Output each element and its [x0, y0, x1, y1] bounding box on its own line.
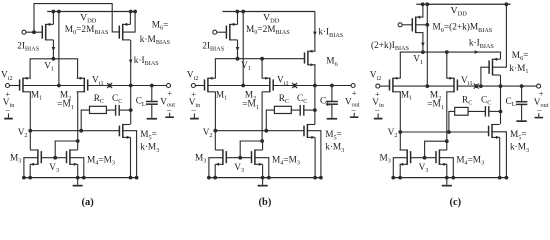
resistor RC (a) — [90, 106, 107, 113]
wire M3 drain to V2 (c) — [399, 132, 401, 150]
label RC (c) — [462, 95, 472, 106]
label (2+k)IBIAS (c) — [371, 40, 409, 52]
ground Vin (a) — [4, 114, 13, 120]
transistor M4 (c) — [436, 149, 447, 166]
ground Vout (a) — [165, 113, 174, 118]
label kIBIAS (c) — [469, 39, 494, 50]
output terminal Vout (b) — [351, 84, 355, 88]
label V3 (b) — [234, 163, 244, 174]
wire CC to output (c) — [489, 110, 501, 112]
svg-text:VDD: VDD — [263, 12, 280, 24]
caption (b) — [259, 197, 272, 208]
transistor M5 (a) — [119, 124, 130, 139]
svg-text:VDD: VDD — [80, 12, 97, 24]
svg-text:–: – — [5, 104, 11, 114]
wire VDD to M1 M2 bulk (a) — [57, 12, 61, 88]
label Vin (b) — [189, 98, 201, 109]
wire M1 drain to V2 (a) — [28, 92, 32, 133]
svg-text:k·IBIAS: k·IBIAS — [134, 56, 159, 67]
VSS rail (b) — [207, 176, 323, 180]
svg-text:k·MBIAS: k·MBIAS — [140, 35, 171, 46]
transistor M1 (c) — [390, 77, 401, 93]
wire VDD to M1 M2 bulk (b) — [241, 12, 245, 88]
svg-text:k·M3: k·M3 — [325, 143, 344, 154]
svg-text:M3: M3 — [380, 153, 391, 164]
ground Vin (c) — [374, 114, 383, 120]
wire M5 bulk to VSS (c) — [492, 132, 506, 178]
node V1 tail wire (c) — [400, 50, 500, 78]
wire M5 source to VSS (a) — [130, 137, 132, 177]
svg-text:V1: V1 — [44, 61, 54, 72]
node V1 tail wire (a) — [30, 57, 78, 79]
capacitor CC (a) — [116, 105, 120, 116]
wire M0 bulk (c) — [416, 23, 429, 27]
svg-text:M4=M3: M4=M3 — [272, 155, 300, 166]
label =M1 (b) — [242, 100, 259, 111]
svg-text:=M1: =M1 — [57, 100, 74, 111]
label RC (b) — [279, 94, 289, 105]
svg-text:M1: M1 — [31, 90, 42, 101]
node V2 wire (c) — [400, 130, 488, 134]
wire M5 source to VSS (c) — [499, 137, 501, 177]
ground CL (b) — [327, 118, 337, 120]
label minus Vin (b) — [191, 104, 197, 114]
label M6= (c) — [512, 51, 529, 62]
capacitor CC (b) — [300, 105, 304, 116]
transistor M3 (a) — [30, 149, 41, 166]
transistor M1 (b) — [205, 77, 216, 93]
svg-text:CL: CL — [506, 97, 516, 108]
wire bias terminal to M0 gate (a) — [26, 30, 42, 34]
wire M4 drain riser (a) — [77, 141, 79, 150]
wire Vi1 feedback line (b) — [273, 84, 351, 88]
label Vi1 (a) — [92, 76, 104, 87]
svg-text:+: + — [352, 88, 357, 98]
transistor M3 (c) — [400, 149, 411, 166]
svg-text:CL: CL — [320, 97, 330, 108]
wire M3 bulk to VSS (c) — [393, 158, 407, 178]
label V3 (a) — [49, 163, 59, 174]
capacitor CL (b) — [326, 86, 338, 118]
node V3 riser wire (a) — [53, 141, 77, 160]
label minus Vout (c) — [536, 104, 542, 114]
svg-text:M1: M1 — [401, 90, 412, 101]
wire M0 source to VDD (b) — [237, 12, 239, 25]
wire M3 M4 gate line (c) — [411, 157, 436, 159]
svg-text:M0=2MBIAS: M0=2MBIAS — [246, 25, 290, 36]
svg-text:RC: RC — [462, 95, 472, 106]
wire CC to output (a) — [119, 109, 131, 111]
VDD rail (c) — [416, 2, 510, 6]
label M4=M3 (b) — [272, 155, 300, 166]
wire M1 M2 bulk line (b) — [208, 85, 270, 87]
svg-text:–: – — [351, 104, 357, 114]
label M0=2MBIAS (b) — [246, 25, 290, 36]
output terminal Vout (c) — [537, 84, 541, 88]
label M5= (a) — [140, 130, 157, 141]
wire RC to CC (b) — [291, 109, 300, 111]
wire M0 source to VDD (c) — [422, 4, 424, 17]
bias input terminal (c) — [398, 23, 402, 27]
wire M0 source to VDD (a) — [52, 12, 54, 25]
svg-text:–: – — [191, 104, 197, 114]
transistor M3 (b) — [215, 149, 226, 166]
wire Vi2 to M1 gate (c) — [380, 85, 390, 87]
svg-text:k·IBIAS: k·IBIAS — [318, 28, 343, 39]
label V1 (b) — [241, 61, 251, 72]
wire M4 bulk to VSS (c) — [439, 158, 453, 178]
svg-text:CC: CC — [112, 94, 122, 105]
label CC (a) — [112, 94, 122, 105]
transistor M2 (c) — [446, 77, 457, 93]
svg-text:M3: M3 — [10, 153, 21, 164]
label M5= (c) — [510, 130, 527, 141]
transistor M5 (b) — [304, 124, 315, 139]
node V2 wire (b) — [215, 129, 304, 133]
wire M3 bulk to VSS (b) — [209, 158, 223, 178]
wire M2 drain (c) — [445, 92, 449, 143]
label V2 (c) — [388, 128, 398, 139]
label M2 (c) — [430, 91, 441, 102]
svg-text:M0=(2+k)MBIAS: M0=(2+k)MBIAS — [433, 22, 493, 34]
label CL (c) — [506, 97, 516, 108]
wire M1 M2 bulk line (a) — [23, 85, 84, 87]
ground Vin (b) — [190, 114, 199, 120]
wire M4 bulk to VSS (a) — [70, 158, 84, 178]
label M3 (c) — [380, 153, 391, 164]
label Vi2 (c) — [370, 71, 382, 82]
svg-text:RC: RC — [279, 94, 289, 105]
wire M6 drain with kIBIAS arrow (a) — [129, 40, 133, 124]
input terminal Vi2 (a) — [6, 84, 10, 88]
svg-text:M5=: M5= — [510, 130, 527, 141]
node V3 riser wire (c) — [423, 141, 447, 159]
capacitor CL (c) — [516, 86, 528, 120]
wire M0 drain with 2IBIAS arrow (a) — [52, 40, 56, 59]
wire M2 drain (a) — [76, 92, 80, 143]
wire M6 drain to output (c) — [499, 75, 503, 124]
label =M1 (c) — [427, 100, 444, 111]
wire M4 source to VSS (a) — [77, 164, 79, 177]
label V1 (a) — [44, 61, 54, 72]
label CL (a) — [136, 97, 146, 108]
label plus Vout (c) — [539, 89, 544, 99]
label M3 (a) — [10, 153, 21, 164]
wire M6 source to VDD (a) — [129, 12, 131, 25]
svg-text:V2: V2 — [203, 128, 213, 139]
svg-text:–: – — [374, 104, 380, 114]
wire RC to CC (a) — [106, 109, 115, 111]
label minus Vout (b) — [351, 104, 357, 114]
wire V2 to RC (a) — [81, 110, 89, 131]
svg-text:Vi2: Vi2 — [1, 71, 13, 82]
label kIBIAS (a) — [134, 56, 159, 67]
label 2IBIAS (a) — [17, 41, 39, 52]
label minus Vin (a) — [5, 104, 11, 114]
transistor M6 (b) — [305, 50, 316, 66]
label V1 (c) — [413, 55, 423, 66]
transistor M1 (a) — [20, 77, 31, 93]
label Vi1 (b) — [277, 76, 289, 87]
label M4=M3 (a) — [87, 155, 115, 166]
svg-text:2IBIAS: 2IBIAS — [202, 41, 224, 52]
transistor M5 (c) — [489, 124, 500, 139]
transistor M4 (a) — [67, 149, 78, 166]
svg-text:2IBIAS: 2IBIAS — [17, 41, 39, 52]
svg-text:CL: CL — [136, 97, 146, 108]
label M2 (b) — [245, 91, 256, 102]
wire M2 source drop (b) — [261, 59, 263, 79]
node V3 riser wire (b) — [238, 141, 262, 160]
svg-text:k·M3: k·M3 — [140, 143, 159, 154]
svg-text:M3: M3 — [195, 153, 206, 164]
label Vi2 (b) — [187, 71, 199, 82]
label V2 (b) — [203, 128, 213, 139]
caption (c) — [450, 197, 462, 208]
ground VSS (a) — [73, 178, 83, 187]
label RC (a) — [94, 94, 104, 105]
label M5= (b) — [325, 130, 342, 141]
label minus Vout (a) — [166, 104, 172, 114]
bias input terminal (a) — [22, 30, 26, 34]
wire M4 drain riser (c) — [446, 141, 448, 150]
transistor M2 (a) — [77, 77, 88, 93]
transistor M0 (b) — [226, 23, 237, 41]
wire VDD to M6 source with kIBIAS arrow (b) — [313, 12, 317, 52]
svg-text:M6=: M6= — [512, 51, 529, 62]
label kM3 (c) — [510, 143, 529, 154]
label Vi2 (a) — [1, 71, 13, 82]
wire Vi2 to M1 gate (b) — [196, 85, 205, 87]
label plus Vout (a) — [167, 88, 172, 98]
label V3 (c) — [419, 163, 429, 174]
wire M4 drain riser (b) — [262, 141, 264, 150]
net label VDD (b) — [263, 12, 280, 24]
ground VSS (b) — [258, 178, 268, 187]
wire M5 bulk to VSS (a) — [123, 131, 137, 178]
label M0=(2+k)MBIAS (c) — [433, 22, 493, 34]
svg-text:=M1: =M1 — [427, 100, 444, 111]
svg-text:M6=: M6= — [152, 20, 169, 31]
svg-text:k·IBIAS: k·IBIAS — [469, 39, 494, 50]
node marker star (b) — [292, 83, 297, 88]
svg-text:V3: V3 — [234, 163, 244, 174]
label M1 (b) — [216, 90, 227, 101]
transistor M6 (a) — [119, 23, 130, 41]
wire Vi2 to M1 gate (a) — [10, 85, 20, 87]
svg-text:–: – — [166, 104, 172, 114]
label M3 (b) — [195, 153, 206, 164]
ground Vout (b) — [350, 113, 359, 118]
transistor M0 (a) — [42, 23, 53, 41]
label kIBIAS (b) — [318, 28, 343, 39]
ground VSS (c) — [442, 178, 452, 187]
wire M1 drain to V2 (c) — [398, 92, 402, 134]
label Vin (a) — [3, 98, 15, 109]
wire Vi1 feedback line (a) — [88, 84, 167, 88]
svg-text:Vi2: Vi2 — [370, 71, 382, 82]
wire M6 gate riser from Vi1 (c) — [479, 67, 489, 88]
wire M0 drain with 2plusk IBIAS arrow (c) — [421, 33, 425, 53]
label V2 (a) — [18, 128, 28, 139]
label plus Vout (b) — [352, 88, 357, 98]
label M4=M3 (c) — [456, 155, 484, 166]
transistor M0 (c) — [412, 16, 423, 34]
svg-text:V3: V3 — [419, 163, 429, 174]
svg-text:V3: V3 — [49, 163, 59, 174]
svg-text:=M1: =M1 — [242, 100, 259, 111]
wire M6 bulk to VDD (c) — [493, 4, 507, 67]
svg-text:V2: V2 — [18, 128, 28, 139]
label M1 (a) — [31, 90, 42, 101]
node marker star (a) — [107, 83, 112, 88]
wire M5 source to VSS (b) — [314, 137, 316, 177]
label Vout (a) — [160, 97, 175, 108]
svg-text:–: – — [536, 104, 542, 114]
wire M1 M2 bulk line (c) — [393, 85, 454, 87]
wire V2 to RC (b) — [266, 110, 274, 131]
wire M5 bulk to VSS (b) — [307, 131, 321, 178]
caption (a) — [82, 197, 95, 208]
wire M4 source to VSS (c) — [446, 164, 448, 177]
wire M4 source to VSS (b) — [262, 164, 264, 177]
wire M3 source to VSS (c) — [399, 164, 401, 177]
label CL (b) — [320, 97, 330, 108]
wire M1 drain to V2 (b) — [214, 92, 218, 133]
svg-text:M0=2MBIAS: M0=2MBIAS — [65, 25, 109, 36]
resistor RC (c) — [455, 107, 468, 115]
capacitor CC (c) — [485, 106, 488, 117]
transistor M2 (b) — [262, 77, 273, 93]
svg-text:M5=: M5= — [140, 130, 157, 141]
ground CL (c) — [516, 120, 526, 122]
wire M4 bulk to VSS (b) — [255, 158, 269, 178]
label M1 (c) — [401, 90, 412, 101]
node V2 wire (a) — [30, 129, 119, 133]
input terminal Vi2 (c) — [376, 84, 380, 88]
svg-text:RC: RC — [94, 94, 104, 105]
label Vout (b) — [345, 97, 360, 108]
wire M6 bulk to VDD (a) — [123, 12, 135, 33]
svg-text:CC: CC — [297, 94, 307, 105]
wire M3 M4 gate line (a) — [41, 157, 66, 159]
svg-text:V1: V1 — [241, 61, 251, 72]
svg-text:+: + — [167, 88, 172, 98]
wire M3 drain to V2 (b) — [214, 131, 216, 150]
svg-text:CC: CC — [481, 95, 491, 106]
wire bias loop over top to M6 gate (a) — [34, 4, 119, 33]
svg-text:M6: M6 — [326, 57, 337, 68]
label M0=2MBIAS (a) — [65, 25, 109, 36]
wire M3 M4 gate line (b) — [226, 157, 251, 159]
label Vi1 (c) — [461, 76, 473, 87]
wire RC to CC (c) — [468, 110, 485, 112]
label CC (b) — [297, 94, 307, 105]
VDD rail (a) — [47, 10, 137, 14]
wire M3 source to VSS (b) — [214, 164, 216, 177]
label M6= (a) — [152, 20, 169, 31]
wire M3 source to VSS (a) — [29, 164, 31, 177]
wire M6 drain to output (b) — [311, 63, 317, 124]
label M2 (a) — [60, 91, 71, 102]
wire CC to output (b) — [304, 109, 315, 111]
node V1 tail wire (b) — [215, 57, 304, 79]
label CC (c) — [481, 95, 491, 106]
label plus Vin (c) — [375, 89, 380, 99]
svg-text:(b): (b) — [259, 197, 272, 208]
label Vin (c) — [372, 98, 384, 109]
output terminal Vout (a) — [167, 84, 171, 88]
net label VDD (a) — [80, 12, 97, 24]
label kM3 (b) — [325, 143, 344, 154]
node marker star (c) — [474, 84, 479, 89]
label plus Vin (a) — [5, 89, 10, 99]
label Vout (c) — [534, 98, 549, 109]
svg-text:M4=M3: M4=M3 — [87, 155, 115, 166]
svg-text:V2: V2 — [388, 128, 398, 139]
net label VDD (c) — [451, 5, 468, 17]
wire M0 drain with 2IBIAS arrow (b) — [236, 40, 240, 59]
svg-text:k·M1: k·M1 — [509, 64, 528, 75]
ground CL (a) — [147, 118, 157, 120]
label plus Vin (b) — [191, 89, 196, 99]
svg-text:(2+k)IBIAS: (2+k)IBIAS — [371, 40, 409, 52]
svg-text:M1: M1 — [216, 90, 227, 101]
capacitor CL (a) — [146, 86, 158, 118]
svg-text:VDD: VDD — [451, 5, 468, 17]
wire M2 drain (b) — [260, 92, 264, 143]
transistor M4 (b) — [252, 149, 263, 166]
wire M2 source drop (c) — [446, 52, 448, 78]
transistor M6 (c) — [489, 58, 500, 76]
svg-text:M5=: M5= — [325, 130, 342, 141]
label =M1 (a) — [57, 100, 74, 111]
label kM3 (a) — [140, 143, 159, 154]
VSS rail (c) — [391, 176, 508, 180]
svg-text:Vi1: Vi1 — [461, 76, 473, 87]
svg-text:(c): (c) — [450, 197, 462, 208]
svg-text:M4=M3: M4=M3 — [456, 155, 484, 166]
svg-text:V1: V1 — [413, 55, 423, 66]
label M6 (b) — [326, 57, 337, 68]
bias input terminal (b) — [213, 30, 217, 34]
wire Vi1 feedback line (c) — [457, 84, 536, 88]
svg-text:k·M3: k·M3 — [510, 143, 529, 154]
resistor RC (b) — [274, 106, 291, 113]
wire M3 bulk to VSS (a) — [24, 158, 38, 178]
label minus Vin (c) — [374, 104, 380, 114]
label kM1 (c) — [509, 64, 528, 75]
svg-text:(a): (a) — [82, 197, 95, 208]
label kMBIAS (a) — [140, 35, 171, 46]
VSS rail (a) — [22, 176, 139, 180]
wire M3 drain to V2 (a) — [29, 131, 31, 150]
label 2IBIAS (b) — [202, 41, 224, 52]
VDD rail (b) — [223, 10, 315, 14]
wire bias terminal to M0 gate (c) — [402, 24, 412, 26]
svg-text:Vi2: Vi2 — [187, 71, 199, 82]
wire bias terminal to M0 gate (b) — [217, 31, 227, 33]
wire VDD to M1 M2 bulk (c) — [425, 4, 429, 88]
ground Vout (c) — [535, 113, 544, 118]
input terminal Vi2 (b) — [191, 84, 195, 88]
wire V2 to RC (c) — [449, 111, 455, 132]
